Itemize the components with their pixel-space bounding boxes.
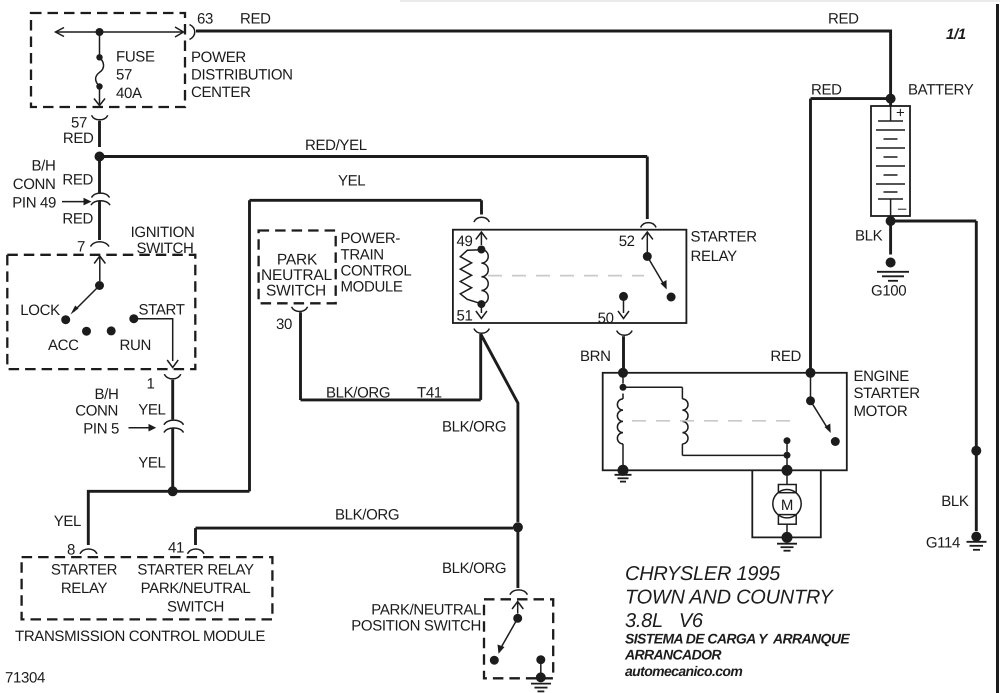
svg-text:CHRYSLER 1995: CHRYSLER 1995: [625, 563, 781, 585]
svg-text:STARTER RELAY: STARTER RELAY: [137, 562, 254, 579]
svg-text:SWITCH: SWITCH: [136, 240, 193, 257]
svg-text:RED/YEL: RED/YEL: [305, 137, 367, 154]
svg-text:ACC: ACC: [48, 337, 79, 354]
svg-text:1/1: 1/1: [946, 26, 966, 43]
svg-text:STARTER: STARTER: [854, 385, 921, 402]
svg-text:RED: RED: [63, 130, 94, 147]
svg-text:51: 51: [457, 308, 473, 325]
svg-text:PIN 5: PIN 5: [83, 421, 119, 438]
svg-text:41: 41: [168, 540, 184, 557]
svg-text:YEL: YEL: [54, 513, 81, 530]
svg-text:POSITION SWITCH: POSITION SWITCH: [351, 618, 481, 635]
svg-text:BATTERY: BATTERY: [908, 82, 974, 99]
svg-text:POWER: POWER: [191, 49, 246, 66]
svg-text:RED: RED: [240, 11, 271, 28]
svg-text:PARK: PARK: [277, 252, 318, 269]
svg-text:RUN: RUN: [120, 337, 151, 354]
svg-text:DISTRIBUTION: DISTRIBUTION: [191, 67, 293, 84]
svg-text:7: 7: [77, 239, 85, 256]
svg-text:49: 49: [457, 233, 473, 250]
svg-text:BLK: BLK: [941, 493, 969, 510]
svg-text:52: 52: [619, 233, 635, 250]
svg-text:STARTER: STARTER: [51, 562, 118, 579]
svg-text:SISTEMA DE CARGA Y ARRANQUE: SISTEMA DE CARGA Y ARRANQUE: [625, 631, 850, 647]
svg-text:YEL: YEL: [138, 455, 165, 472]
svg-text:SWITCH: SWITCH: [167, 599, 224, 616]
svg-text:MOTOR: MOTOR: [854, 403, 908, 420]
svg-text:automecanico.com: automecanico.com: [625, 663, 742, 679]
svg-text:57: 57: [116, 67, 132, 84]
svg-text:BLK/ORG: BLK/ORG: [442, 419, 506, 436]
svg-text:RED: RED: [770, 348, 801, 365]
svg-text:RELAY: RELAY: [61, 580, 108, 597]
svg-text:71304: 71304: [5, 670, 45, 687]
svg-text:ARRANCADOR: ARRANCADOR: [624, 647, 722, 663]
svg-text:PARK/NEUTRAL: PARK/NEUTRAL: [371, 602, 481, 619]
svg-text:BLK/ORG: BLK/ORG: [442, 560, 506, 577]
svg-text:B/H: B/H: [32, 158, 56, 175]
svg-text:RED: RED: [62, 172, 93, 189]
svg-text:–: –: [898, 200, 907, 217]
svg-text:63: 63: [197, 11, 213, 28]
svg-text:PARK/NEUTRAL: PARK/NEUTRAL: [141, 580, 251, 597]
svg-text:TRANSMISSION CONTROL MODULE: TRANSMISSION CONTROL MODULE: [15, 628, 265, 645]
svg-text:RED: RED: [62, 211, 93, 228]
svg-text:RED: RED: [811, 82, 842, 99]
svg-text:RED: RED: [828, 11, 859, 28]
svg-text:3.8L V6: 3.8L V6: [625, 610, 704, 632]
svg-text:G114: G114: [926, 535, 960, 552]
svg-text:TOWN AND COUNTRY: TOWN AND COUNTRY: [625, 587, 834, 609]
svg-text:BLK: BLK: [855, 228, 883, 245]
svg-text:BRN: BRN: [580, 348, 611, 365]
svg-text:STARTER: STARTER: [691, 229, 758, 246]
svg-text:MODULE: MODULE: [341, 279, 403, 296]
svg-text:+: +: [896, 105, 905, 122]
svg-text:G100: G100: [871, 283, 906, 300]
svg-text:YEL: YEL: [138, 402, 165, 419]
svg-text:YEL: YEL: [338, 173, 365, 190]
svg-text:50: 50: [598, 310, 614, 327]
svg-text:FUSE: FUSE: [116, 49, 155, 66]
svg-text:BLK/ORG: BLK/ORG: [326, 385, 390, 402]
svg-text:1: 1: [147, 376, 155, 393]
svg-text:ENGINE: ENGINE: [854, 368, 910, 385]
svg-text:CONTROL: CONTROL: [341, 263, 412, 280]
svg-text:SWITCH: SWITCH: [266, 283, 326, 300]
svg-text:57: 57: [71, 115, 87, 132]
svg-text:40A: 40A: [116, 85, 142, 102]
svg-text:CONN: CONN: [13, 176, 56, 193]
svg-text:BLK/ORG: BLK/ORG: [335, 507, 399, 524]
svg-text:NEUTRAL: NEUTRAL: [261, 267, 333, 284]
svg-text:POWER-: POWER-: [341, 230, 401, 247]
svg-text:TRAIN: TRAIN: [341, 247, 384, 264]
svg-text:M: M: [781, 497, 793, 514]
svg-text:30: 30: [276, 316, 292, 333]
svg-text:LOCK: LOCK: [20, 302, 60, 319]
svg-text:T41: T41: [417, 385, 442, 402]
svg-text:CONN: CONN: [75, 403, 118, 420]
svg-text:PIN 49: PIN 49: [12, 195, 56, 212]
svg-text:CENTER: CENTER: [191, 84, 251, 101]
svg-text:START: START: [139, 302, 185, 319]
svg-text:B/H: B/H: [95, 386, 119, 403]
svg-text:IGNITION: IGNITION: [131, 224, 195, 241]
svg-text:RELAY: RELAY: [691, 248, 738, 265]
